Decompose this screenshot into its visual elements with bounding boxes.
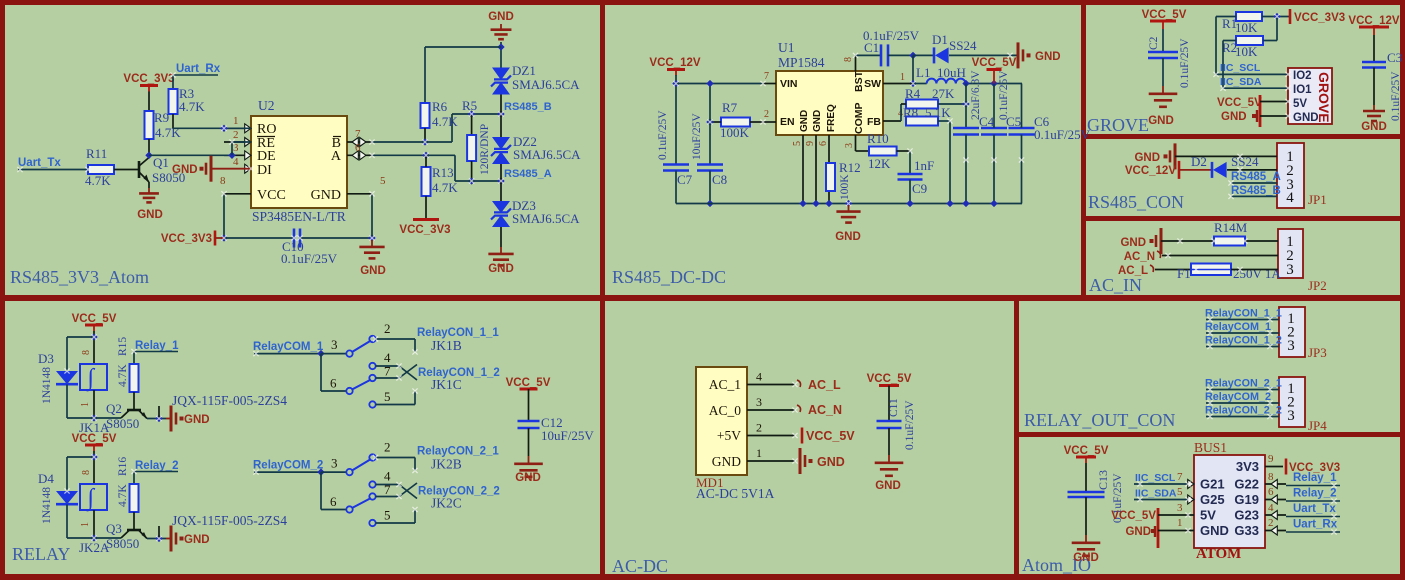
svg-text:R10: R10 (867, 131, 889, 146)
svg-text:RelayCON_2_1: RelayCON_2_1 (1205, 378, 1282, 390)
svg-text:RelayCOM_1: RelayCOM_1 (253, 341, 324, 353)
svg-text:6: 6 (330, 376, 337, 391)
svg-text:EN: EN (780, 116, 795, 128)
svg-text:8: 8 (843, 57, 854, 62)
svg-text:GROVE: GROVE (1316, 72, 1332, 123)
svg-text:10K: 10K (1235, 20, 1258, 35)
svg-text:VCC_5V: VCC_5V (1064, 445, 1109, 457)
svg-text:RS485_DC-DC: RS485_DC-DC (612, 267, 726, 287)
svg-text:R8: R8 (903, 105, 918, 120)
svg-text:IO2: IO2 (1293, 70, 1312, 82)
svg-text:RELAY: RELAY (12, 544, 70, 564)
svg-text:G23: G23 (1234, 508, 1259, 523)
svg-text:FREQ: FREQ (826, 104, 837, 132)
svg-text:VCC_5V: VCC_5V (867, 373, 912, 385)
svg-text:4: 4 (1268, 502, 1274, 514)
svg-text:9: 9 (1268, 453, 1274, 465)
svg-text:AC_N: AC_N (1124, 251, 1155, 263)
svg-text:DI: DI (257, 163, 272, 178)
svg-text:8: 8 (81, 350, 92, 355)
svg-text:7: 7 (384, 482, 391, 497)
svg-text:VCC_3V3: VCC_3V3 (123, 73, 174, 85)
svg-text:GND: GND (1200, 523, 1229, 538)
svg-text:R13: R13 (432, 165, 454, 180)
svg-text:SP3485EN-L/TR: SP3485EN-L/TR (252, 209, 346, 224)
svg-text:5: 5 (380, 175, 386, 187)
svg-text:R16: R16 (117, 457, 129, 476)
svg-text:R9: R9 (154, 110, 169, 125)
svg-text:VCC_5V: VCC_5V (1217, 97, 1262, 109)
svg-text:U2: U2 (258, 98, 275, 113)
svg-text:VCC_3V3: VCC_3V3 (399, 224, 450, 236)
svg-text:VCC_5V: VCC_5V (506, 377, 551, 389)
svg-text:DE: DE (257, 149, 276, 164)
svg-text:GND: GND (1073, 552, 1099, 564)
svg-text:G21: G21 (1200, 477, 1225, 492)
svg-text:GND: GND (1221, 111, 1247, 123)
svg-text:G33: G33 (1234, 523, 1259, 538)
svg-text:GND: GND (184, 414, 210, 426)
svg-text:GND: GND (817, 455, 845, 469)
svg-text:12K: 12K (868, 156, 891, 171)
svg-text:D4: D4 (38, 471, 54, 486)
svg-text:VCC: VCC (257, 188, 286, 203)
svg-text:1: 1 (80, 522, 91, 527)
svg-text:IIC_SCL: IIC_SCL (1220, 62, 1261, 74)
svg-text:Uart_Rx: Uart_Rx (1293, 519, 1338, 531)
svg-text:R6: R6 (432, 99, 448, 114)
svg-text:1N4148: 1N4148 (41, 367, 53, 404)
svg-text:JK2B: JK2B (431, 457, 462, 472)
svg-text:Uart_Tx: Uart_Tx (18, 157, 61, 169)
svg-text:R5: R5 (462, 98, 477, 113)
svg-text:VCC_5V: VCC_5V (72, 313, 117, 325)
svg-text:4.7K: 4.7K (179, 99, 205, 114)
svg-text:RelayCON_1_2: RelayCON_1_2 (1205, 335, 1282, 347)
svg-text:5: 5 (384, 389, 391, 404)
svg-text:6: 6 (818, 141, 829, 146)
svg-text:C7: C7 (677, 172, 693, 187)
svg-text:RS485_B: RS485_B (1231, 185, 1281, 197)
svg-text:120R/DNP: 120R/DNP (479, 124, 491, 175)
svg-text:AC_1: AC_1 (709, 377, 741, 392)
svg-text:G22: G22 (1234, 477, 1259, 492)
svg-text:R12: R12 (839, 160, 861, 175)
svg-text:AC-DC: AC-DC (612, 556, 668, 576)
svg-text:RelayCOM_1: RelayCOM_1 (1205, 321, 1271, 333)
svg-text:4: 4 (756, 370, 762, 384)
svg-text:SW: SW (864, 78, 881, 90)
svg-text:0.1uF/25V: 0.1uF/25V (998, 70, 1010, 120)
svg-text:C8: C8 (712, 172, 727, 187)
svg-text:RS485_CON: RS485_CON (1088, 192, 1184, 212)
svg-text:0.1uF/25V: 0.1uF/25V (904, 400, 916, 450)
svg-text:10uF/25V: 10uF/25V (691, 113, 703, 160)
svg-text:AC_L: AC_L (808, 378, 841, 392)
svg-text:5: 5 (792, 141, 803, 146)
svg-text:Q2: Q2 (106, 401, 122, 416)
svg-text:GROVE: GROVE (1087, 115, 1149, 135)
svg-text:GND: GND (488, 11, 514, 23)
svg-text:SMAJ6.5CA: SMAJ6.5CA (513, 147, 581, 162)
svg-text:RelayCOM_2: RelayCOM_2 (253, 460, 323, 472)
svg-text:Relay_2: Relay_2 (135, 460, 178, 472)
svg-text:FB: FB (867, 116, 881, 128)
svg-text:4.7K: 4.7K (117, 484, 129, 507)
svg-text:+5V: +5V (717, 428, 741, 443)
svg-text:7: 7 (355, 128, 361, 140)
svg-text:RS485_A: RS485_A (504, 168, 552, 180)
svg-text:GND: GND (875, 480, 901, 492)
svg-text:GND: GND (1035, 51, 1061, 63)
svg-text:100K: 100K (720, 125, 750, 140)
svg-text:C11: C11 (888, 398, 900, 417)
svg-text:2: 2 (384, 321, 391, 336)
svg-text:RELAY_OUT_CON: RELAY_OUT_CON (1024, 410, 1175, 430)
svg-text:7: 7 (1177, 471, 1183, 483)
svg-text:GND: GND (184, 534, 210, 546)
svg-text:IIC_SDA: IIC_SDA (1220, 76, 1262, 88)
svg-text:BUS1: BUS1 (1194, 440, 1227, 455)
svg-text:VCC_3V3: VCC_3V3 (161, 233, 212, 245)
svg-text:AC-DC 5V1A: AC-DC 5V1A (696, 486, 775, 501)
svg-text:GND: GND (488, 263, 514, 275)
svg-text:0.1uF/25V: 0.1uF/25V (863, 28, 920, 43)
svg-text:1nF: 1nF (914, 158, 934, 173)
svg-text:Uart_Rx: Uart_Rx (176, 63, 221, 75)
svg-text:2: 2 (384, 440, 391, 455)
svg-text:VCC_5V: VCC_5V (1111, 510, 1156, 522)
svg-text:6: 6 (1268, 486, 1274, 498)
svg-text:0.1uF/25V: 0.1uF/25V (1179, 38, 1191, 88)
svg-text:2: 2 (756, 421, 762, 435)
svg-text:AC_L: AC_L (1118, 265, 1148, 277)
svg-text:R14M: R14M (1214, 220, 1248, 235)
svg-text:GND: GND (812, 110, 823, 132)
svg-text:4.7K: 4.7K (155, 125, 181, 140)
svg-text:10uF/25V: 10uF/25V (541, 428, 594, 443)
svg-text:L1 10uH: L1 10uH (916, 65, 966, 80)
svg-text:F1: F1 (1177, 266, 1191, 281)
svg-text:4.7K: 4.7K (117, 364, 129, 387)
svg-text:JP3: JP3 (1308, 345, 1327, 360)
svg-text:GND: GND (835, 231, 861, 243)
svg-text:5V: 5V (1293, 98, 1307, 110)
svg-text:RelayCON_1_1: RelayCON_1_1 (1205, 308, 1282, 320)
svg-text:GND: GND (1361, 121, 1387, 133)
svg-text:JQX-115F-005-2ZS4: JQX-115F-005-2ZS4 (172, 513, 287, 528)
svg-text:AC_IN: AC_IN (1089, 275, 1142, 295)
svg-text:8: 8 (220, 175, 226, 187)
svg-text:VCC_12V: VCC_12V (1125, 165, 1176, 177)
svg-text:MP1584: MP1584 (778, 55, 825, 70)
svg-text:RelayCOM_2: RelayCOM_2 (1205, 391, 1271, 403)
svg-text:GND: GND (360, 265, 386, 277)
svg-text:VCC_12V: VCC_12V (1348, 15, 1399, 27)
svg-text:2: 2 (764, 109, 769, 120)
svg-text:JQX-115F-005-2ZS4: JQX-115F-005-2ZS4 (172, 393, 287, 408)
svg-text:VIN: VIN (780, 78, 798, 90)
svg-text:COMP: COMP (853, 103, 865, 135)
svg-text:100K: 100K (839, 174, 851, 200)
svg-text:4: 4 (233, 156, 239, 168)
svg-text:4.7K: 4.7K (85, 173, 111, 188)
svg-text:JP4: JP4 (1308, 418, 1327, 433)
svg-text:7: 7 (764, 71, 769, 82)
svg-text:6: 6 (330, 494, 337, 509)
svg-text:∫: ∫ (86, 365, 96, 392)
svg-text:GND: GND (1293, 112, 1319, 124)
svg-text:5.1K: 5.1K (925, 105, 951, 120)
svg-text:JK1C: JK1C (431, 377, 462, 392)
svg-text:6: 6 (355, 142, 361, 154)
svg-text:22uF/6.3V: 22uF/6.3V (970, 70, 982, 120)
svg-text:5: 5 (384, 508, 391, 523)
svg-text:250V 1A: 250V 1A (1233, 266, 1281, 281)
svg-text:R15: R15 (117, 337, 129, 356)
svg-text:DZ1: DZ1 (512, 63, 536, 78)
svg-text:RO: RO (257, 122, 276, 137)
svg-text:S8050: S8050 (106, 536, 139, 551)
svg-text:1: 1 (1177, 517, 1183, 529)
svg-text:Relay_1: Relay_1 (135, 340, 179, 352)
svg-text:3: 3 (1287, 338, 1295, 354)
svg-text:VCC_5V: VCC_5V (1142, 9, 1187, 21)
svg-text:9: 9 (805, 141, 816, 146)
svg-text:Q1: Q1 (153, 155, 169, 170)
svg-text:RelayCON_2_2: RelayCON_2_2 (1205, 405, 1282, 417)
svg-text:GND: GND (311, 188, 341, 203)
svg-text:C5: C5 (1006, 114, 1021, 129)
svg-text:3: 3 (1286, 262, 1294, 278)
svg-text:1N4148: 1N4148 (41, 487, 53, 524)
svg-text:VCC_5V: VCC_5V (972, 57, 1017, 69)
svg-text:1: 1 (756, 446, 762, 460)
svg-text:0.1uF/25V: 0.1uF/25V (1034, 127, 1091, 142)
svg-text:D3: D3 (38, 351, 54, 366)
svg-text:GND: GND (1134, 152, 1160, 164)
svg-text:C2: C2 (1148, 36, 1160, 50)
svg-text:GND: GND (712, 454, 741, 469)
svg-text:Relay_1: Relay_1 (1293, 472, 1337, 484)
svg-text:Relay_2: Relay_2 (1293, 488, 1336, 500)
svg-text:3V3: 3V3 (1236, 459, 1259, 474)
svg-text:1: 1 (900, 72, 905, 83)
svg-text:S8050: S8050 (106, 416, 139, 431)
svg-text:0.1uF/25V: 0.1uF/25V (657, 110, 669, 160)
svg-text:C3: C3 (1387, 50, 1402, 65)
svg-text:G19: G19 (1234, 492, 1259, 507)
svg-text:AC_N: AC_N (808, 403, 842, 417)
svg-text:0.1uF/25V: 0.1uF/25V (281, 251, 338, 266)
svg-text:VCC_5V: VCC_5V (806, 429, 855, 443)
svg-text:R7: R7 (722, 100, 738, 115)
svg-text:GND: GND (515, 472, 541, 484)
svg-text:8: 8 (81, 470, 92, 475)
svg-text:VCC_5V: VCC_5V (72, 433, 117, 445)
svg-text:RS485_B: RS485_B (504, 101, 552, 113)
svg-text:SMAJ6.5CA: SMAJ6.5CA (512, 211, 580, 226)
svg-text:JP2: JP2 (1308, 278, 1327, 293)
svg-text:3: 3 (756, 395, 762, 409)
svg-text:8: 8 (1268, 471, 1274, 483)
svg-text:∫: ∫ (86, 485, 96, 512)
svg-text:0.1uF/25V: 0.1uF/25V (1390, 71, 1402, 121)
svg-text:JK2C: JK2C (431, 496, 462, 511)
svg-text:BST: BST (853, 70, 865, 92)
svg-text:R11: R11 (86, 146, 107, 161)
svg-text:JK1B: JK1B (431, 338, 462, 353)
svg-text:D1: D1 (932, 32, 948, 47)
svg-text:5: 5 (1177, 486, 1183, 498)
svg-text:SS24: SS24 (949, 38, 977, 53)
svg-text:3: 3 (331, 456, 338, 471)
svg-text:G25: G25 (1200, 492, 1225, 507)
svg-text:C9: C9 (912, 181, 927, 196)
svg-text:27K: 27K (932, 86, 955, 101)
svg-text:ATOM: ATOM (1196, 546, 1241, 562)
svg-text:7: 7 (384, 364, 391, 379)
svg-text:1: 1 (80, 402, 91, 407)
svg-text:2: 2 (1268, 517, 1274, 529)
svg-text:GND: GND (172, 164, 198, 176)
svg-text:4.7K: 4.7K (432, 180, 458, 195)
svg-text:Q3: Q3 (106, 521, 122, 536)
svg-text:D2: D2 (1191, 154, 1207, 169)
svg-text:4.7K: 4.7K (432, 114, 458, 129)
svg-text:VCC_12V: VCC_12V (649, 57, 700, 69)
svg-text:GND: GND (1148, 115, 1174, 127)
svg-text:3: 3 (1177, 502, 1183, 514)
svg-text:R4: R4 (905, 86, 921, 101)
svg-text:C4: C4 (979, 114, 995, 129)
svg-text:VCC_3V3: VCC_3V3 (1294, 12, 1345, 24)
svg-text:4: 4 (1286, 190, 1294, 206)
svg-text:GND: GND (1120, 237, 1146, 249)
svg-text:1: 1 (233, 115, 239, 127)
svg-text:U1: U1 (778, 40, 795, 55)
svg-text:RS485_A: RS485_A (1231, 171, 1281, 183)
svg-text:10K: 10K (1235, 44, 1258, 59)
svg-text:A: A (331, 149, 342, 164)
svg-text:GND: GND (799, 110, 810, 132)
svg-text:IO1: IO1 (1293, 84, 1312, 96)
svg-text:C13: C13 (1096, 470, 1110, 490)
svg-text:3: 3 (331, 337, 338, 352)
svg-text:RS485_3V3_Atom: RS485_3V3_Atom (10, 267, 149, 287)
svg-text:2: 2 (233, 129, 239, 141)
svg-text:GND: GND (137, 209, 163, 221)
svg-text:Uart_Tx: Uart_Tx (1293, 503, 1336, 515)
svg-text:SS24: SS24 (1231, 154, 1259, 169)
svg-text:AC_0: AC_0 (709, 403, 742, 418)
svg-text:3: 3 (844, 143, 855, 148)
svg-text:3: 3 (1287, 408, 1295, 424)
svg-text:SMAJ6.5CA: SMAJ6.5CA (512, 77, 580, 92)
svg-text:GND: GND (1125, 526, 1151, 538)
svg-text:JP1: JP1 (1308, 192, 1327, 207)
svg-text:5V: 5V (1200, 508, 1216, 523)
